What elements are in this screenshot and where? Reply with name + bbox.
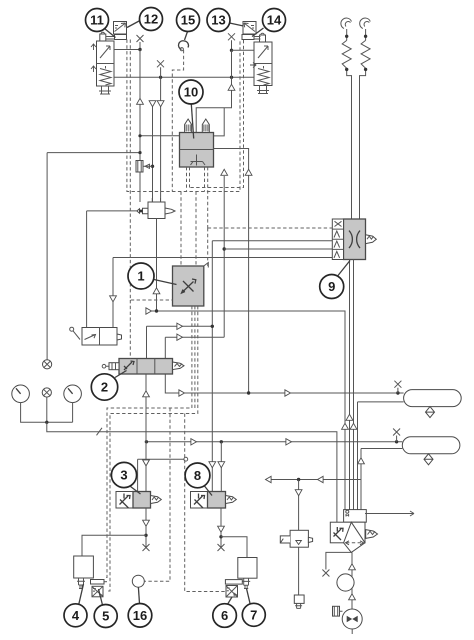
valve 11 body	[91, 32, 114, 94]
dashed to unit9	[208, 228, 333, 266]
unloader drain	[322, 552, 351, 576]
check arrows on risers	[346, 414, 353, 420]
node dot	[211, 325, 214, 328]
reservoir2 lower line	[361, 449, 402, 510]
delivery line arrow	[365, 511, 414, 516]
node dot	[230, 76, 233, 79]
flow arrow	[157, 101, 164, 107]
node dot valve11	[138, 48, 141, 51]
wire box10 left feed	[140, 135, 180, 137]
callout 3	[111, 462, 136, 487]
arrowhead mid	[318, 476, 324, 482]
leader 16	[138, 587, 139, 603]
hose hook 15	[178, 41, 188, 50]
flow arrow	[137, 98, 144, 104]
warning lamp	[42, 388, 51, 424]
leader 14	[252, 28, 264, 37]
node dot	[159, 76, 162, 79]
valve 14 body	[250, 33, 272, 93]
pilot dashed inner left	[130, 40, 172, 359]
wire node down to restrictor	[139, 50, 141, 161]
callout 15	[177, 9, 200, 32]
supply rail to unit9	[113, 258, 332, 328]
node dot	[396, 391, 399, 394]
leader 12	[127, 21, 140, 28]
coiled hose right	[360, 18, 371, 220]
flow arrow	[228, 84, 235, 90]
node dot	[223, 247, 226, 250]
node dot	[297, 478, 300, 481]
solenoid block outputs dashed	[187, 167, 208, 228]
wire to valve14 upper port	[232, 49, 255, 51]
flow arrow	[349, 594, 356, 600]
valve2 exhaust line	[145, 374, 147, 492]
control line to compressor governor	[267, 479, 362, 481]
leader 2	[115, 371, 127, 378]
dashed drops below valve1	[104, 306, 198, 591]
svg-text:8: 8	[194, 468, 201, 483]
air dryer circle	[337, 574, 354, 591]
wire box10 right port to drop	[214, 149, 249, 394]
levelling valve 3	[116, 492, 161, 509]
pilot dashed coupling 13 inner	[190, 40, 244, 188]
arrowhead left	[266, 476, 272, 482]
node dot	[220, 440, 223, 443]
distribution line below valve1	[149, 311, 346, 510]
callout 14	[263, 9, 286, 32]
dashed risers to valve1	[181, 192, 196, 267]
coupling head 12	[106, 22, 127, 40]
check arrow	[245, 169, 252, 175]
leader 11	[105, 29, 116, 38]
flow arrow	[177, 334, 183, 340]
pilot dashed hook drop	[172, 50, 183, 192]
valve8 riser	[220, 442, 222, 492]
wire feed from left to filter	[87, 211, 137, 328]
intake arrow	[149, 101, 156, 107]
callout 5	[94, 605, 117, 628]
air reservoir 1	[404, 390, 462, 418]
flow arrow down	[110, 296, 117, 302]
svg-text:7: 7	[250, 608, 257, 623]
wire valve11 upper port to node	[114, 49, 140, 51]
leader 1	[154, 280, 177, 285]
directional valve 2	[102, 359, 184, 375]
svg-text:5: 5	[102, 609, 109, 624]
wire node to unit9	[224, 248, 332, 250]
svg-text:16: 16	[133, 608, 147, 623]
governor valve	[280, 480, 312, 609]
node dot	[144, 534, 147, 537]
wire pilot down right	[196, 50, 231, 136]
motor	[333, 606, 343, 616]
wire to relay box4	[82, 535, 146, 556]
wire restrictor down to filter unit	[139, 172, 141, 202]
check arrow	[221, 169, 228, 175]
pressure gauge left	[12, 385, 73, 422]
svg-text:4: 4	[72, 608, 80, 623]
node dot	[247, 391, 250, 394]
valve3 feed branch	[138, 459, 184, 491]
air reservoir 2	[402, 437, 460, 465]
svg-text:12: 12	[144, 12, 158, 27]
valve8 exhaust down	[220, 508, 222, 547]
wire left feed to restrictor	[47, 153, 140, 360]
flow marker	[285, 390, 291, 396]
port circle	[184, 457, 188, 461]
valve block 1	[173, 263, 209, 307]
relay emergency valve 7	[238, 558, 257, 589]
trailer control unit 9	[332, 219, 376, 260]
reservoir1 lower line	[358, 402, 404, 510]
relay emergency valve 4	[74, 556, 94, 589]
callout 9	[320, 275, 344, 299]
callout 10	[179, 80, 203, 104]
intake line mid	[152, 106, 154, 202]
test point X res1	[394, 381, 401, 393]
plug X top left	[137, 35, 144, 50]
svg-text:1: 1	[137, 269, 144, 284]
svg-text:11: 11	[90, 13, 104, 28]
pilot port circle 16	[132, 575, 144, 587]
flow arrow	[218, 526, 225, 532]
break mark	[97, 428, 103, 436]
leader 10	[191, 104, 193, 139]
node dot	[138, 134, 141, 137]
node dot	[145, 440, 148, 443]
wire unit9 outputs down	[350, 260, 354, 510]
reservoir2 feed line	[146, 441, 402, 443]
leader 7	[247, 589, 251, 604]
levelling valve 8	[191, 492, 237, 509]
dashed mid buses down	[144, 408, 226, 592]
pilot solenoid left	[185, 119, 192, 133]
coupling head 5	[91, 580, 108, 597]
coupling head 6	[225, 580, 242, 597]
plug X right	[228, 33, 235, 50]
svg-text:9: 9	[328, 279, 335, 294]
callout 4	[64, 604, 87, 627]
flow arrows	[209, 462, 216, 468]
leader 13	[230, 23, 244, 26]
flow marker	[191, 439, 197, 445]
wire long port line valves 11-14	[114, 76, 254, 78]
svg-text:3: 3	[120, 468, 127, 483]
wire valve2 feed branch	[147, 326, 213, 358]
wire corner riser to unit9	[212, 241, 332, 492]
pilot solenoid right	[202, 119, 209, 133]
flow marker	[179, 390, 185, 396]
valve3 exhaust to box4	[145, 508, 147, 547]
leader 8	[205, 486, 213, 496]
leader 15	[185, 32, 188, 41]
compressor	[342, 609, 362, 634]
callout 12	[140, 8, 163, 31]
callout 13	[207, 9, 230, 32]
wire to relay box7	[221, 537, 247, 558]
four circuit protection valve assembly	[330, 510, 377, 553]
compressor feed line	[351, 552, 353, 609]
node dot	[219, 535, 222, 538]
svg-text:14: 14	[267, 13, 282, 28]
wire mid line 2	[160, 77, 162, 202]
node dot	[395, 440, 398, 443]
flow arrow down	[143, 460, 150, 466]
flow marker	[146, 308, 152, 314]
node dot	[230, 49, 233, 52]
pressure gauge right	[64, 385, 82, 403]
svg-text:6: 6	[221, 608, 228, 623]
flow arrow	[177, 323, 183, 329]
supply line valve2 to reservoir1	[165, 374, 403, 393]
svg-text:15: 15	[181, 13, 195, 28]
check arrow	[358, 458, 365, 464]
leader 9	[338, 261, 350, 276]
svg-text:10: 10	[184, 85, 198, 100]
callout 8	[185, 463, 210, 488]
hand control valve	[70, 327, 122, 345]
plug X mid	[157, 60, 164, 77]
callout 16	[128, 604, 152, 628]
leader 4	[79, 584, 84, 604]
coiled hose left	[341, 18, 352, 220]
plug X	[218, 544, 225, 551]
plug X	[143, 544, 150, 551]
coupling head 13	[242, 22, 261, 40]
flow marker	[286, 439, 292, 445]
test point X res2	[393, 429, 400, 442]
callout 11	[86, 9, 109, 32]
flow arrow up	[143, 391, 150, 397]
solenoid valve block 10	[180, 133, 214, 168]
callout 1	[128, 263, 154, 289]
wire mid riser	[165, 176, 224, 359]
node dot	[155, 309, 158, 312]
pilot dashed from coupling 12 outer	[127, 40, 240, 192]
callout 6	[213, 604, 237, 628]
leader 6	[228, 597, 232, 604]
svg-text:2: 2	[101, 380, 108, 395]
callout 7	[242, 603, 265, 626]
leader 5	[99, 589, 103, 605]
restrictor	[136, 161, 154, 173]
flow arrow	[349, 564, 356, 570]
filter unit above valve1	[137, 198, 175, 311]
flow arrow	[143, 520, 150, 526]
main rail to protection valve	[47, 422, 337, 522]
plugged lamp X circle	[43, 360, 52, 369]
leader 3	[131, 487, 141, 495]
callout 2	[91, 374, 117, 400]
svg-text:13: 13	[211, 13, 225, 28]
